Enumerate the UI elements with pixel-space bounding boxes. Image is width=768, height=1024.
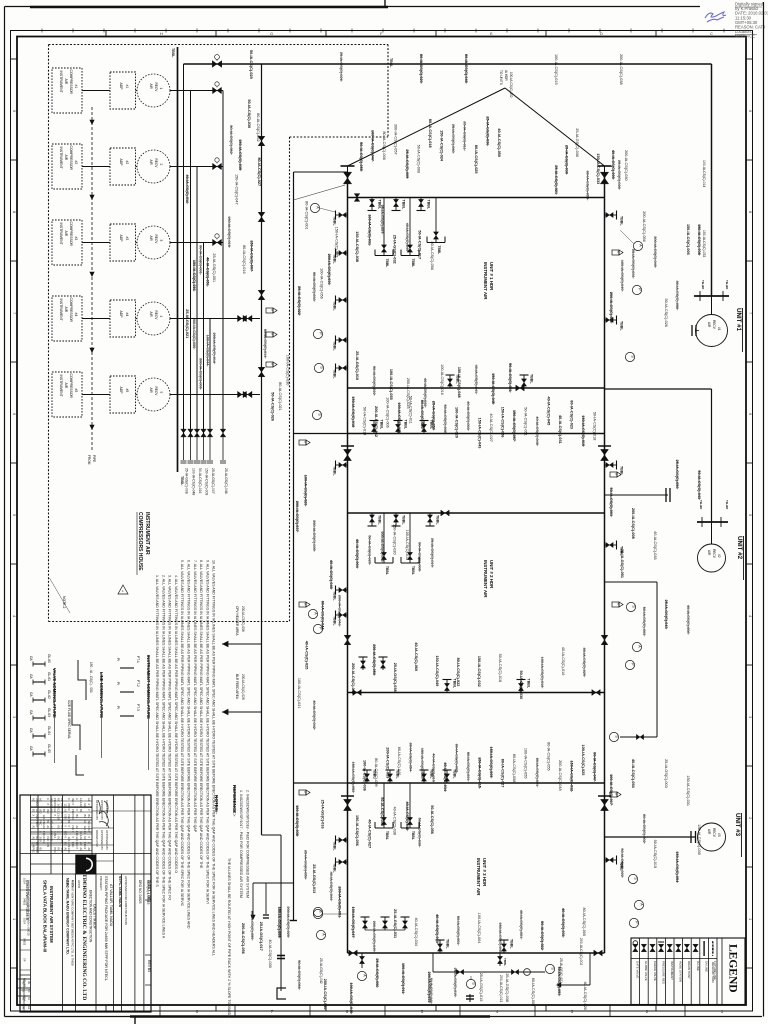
- wire units left riser: [293, 172, 295, 920]
- svg-text:80-IA-CS(C)-008: 80-IA-CS(C)-008: [531, 978, 535, 1006]
- svg-text:NTPC-TAMIL NADU ENERGY COMPANY: NTPC-TAMIL NADU ENERGY COMPANY LTD.: [66, 878, 70, 955]
- valve main header: [212, 61, 222, 68]
- note leader: [50, 578, 71, 613]
- svg-text:AIR: AIR: [149, 312, 153, 318]
- wire receiver 5 discharge: [170, 394, 223, 396]
- svg-text:D: D: [600, 31, 603, 36]
- svg-text:25-IA-GS(C)-038: 25-IA-GS(C)-038: [393, 663, 397, 692]
- svg-text:80-IA-CS(C)-058: 80-IA-CS(C)-058: [512, 754, 516, 782]
- svg-text:ERECTION AND CONSTRUCTION: ERECTION AND CONSTRUCTION: [89, 890, 93, 943]
- svg-text:150-IA-CS(C)-043: 150-IA-CS(C)-043: [478, 418, 482, 449]
- svg-text:A1: A1: [35, 809, 39, 813]
- svg-text:DRAIN TRAP: DRAIN TRAP: [687, 961, 691, 979]
- svg-text:25-IA-GS(C)-015: 25-IA-GS(C)-015: [479, 973, 483, 1002]
- svg-text:TBBL: TBBL: [620, 321, 624, 331]
- wire main header drop to unit1: [711, 64, 713, 296]
- svg-text:25-IA-GS(C)-036: 25-IA-GS(C)-036: [575, 128, 579, 157]
- svg-text:RC: RC: [57, 848, 61, 852]
- svg-text:RC: RC: [57, 837, 61, 841]
- svg-text:40-IA-CS(C)-027: 40-IA-CS(C)-027: [489, 413, 493, 441]
- unit2 entry valve left: [341, 445, 354, 447]
- svg-text:CALCUTTA BOP: CALCUTTA BOP: [93, 904, 97, 930]
- unit2 left bubble 3: [313, 624, 322, 633]
- svg-text:150-IA-CS(C)-033: 150-IA-CS(C)-033: [702, 230, 706, 257]
- unit1 on-bus valve: [516, 385, 524, 391]
- svg-text:PI: PI: [116, 682, 120, 685]
- unit3 receiver line: [605, 836, 696, 838]
- unit1 left bubble 3: [314, 363, 323, 372]
- svg-text:APPROVED BY: APPROVED BY: [100, 830, 104, 850]
- svg-text:1. 04823/DWG/SP/1017 - P&ID FO: 1. 04823/DWG/SP/1017 - P&ID FOR COMPRESS…: [239, 790, 243, 898]
- svg-text:200-IA-CS(C)-002: 200-IA-CS(C)-002: [579, 938, 583, 965]
- svg-text:S: S: [631, 355, 635, 358]
- svg-text:0: 0: [71, 831, 75, 833]
- svg-text:B: B: [271, 363, 275, 365]
- svg-text:80-IA-CS(C)-055: 80-IA-CS(C)-055: [547, 742, 551, 770]
- svg-text:GL-65: GL-65: [47, 744, 51, 753]
- svg-text:#4: #4: [125, 313, 129, 317]
- unit2 right bubble 2: [632, 642, 641, 651]
- svg-text:AC: AC: [87, 848, 91, 852]
- svg-text:TBBL: TBBL: [333, 841, 337, 851]
- svg-text:ADP: ADP: [119, 311, 123, 319]
- valve train 3: [213, 239, 222, 245]
- svg-text:A1: A1: [87, 798, 91, 802]
- title block revision rows: [31, 800, 93, 802]
- svg-text:AIR: AIR: [149, 388, 153, 394]
- svg-text:AIR: AIR: [149, 236, 153, 242]
- unit3 right stubs: [605, 859, 617, 861]
- svg-text:RECV: RECV: [712, 828, 716, 838]
- svg-text:INSTRUMENT AIR: INSTRUMENT AIR: [483, 262, 488, 300]
- unit2 mid valve left: [344, 635, 351, 645]
- svg-text:#3: #3: [125, 237, 129, 241]
- unit3 entry valve left: [341, 795, 354, 797]
- valve branch 3: [258, 290, 265, 300]
- svg-text:50-IA-CS(C)-036: 50-IA-CS(C)-036: [519, 671, 523, 700]
- svg-text:10. ALL VALVES AND FITTINGS IN: 10. ALL VALVES AND FITTINGS IN IA LINES …: [212, 560, 216, 956]
- svg-text:REV B3: REV B3: [23, 978, 27, 988]
- svg-text:150-IA-CS(C)-048: 150-IA-CS(C)-048: [457, 367, 461, 398]
- svg-text:50-IA-CS(C)-026: 50-IA-CS(C)-026: [664, 299, 668, 327]
- svg-text:B3: B3: [87, 815, 91, 819]
- unit3 stubs above top bus: [366, 770, 368, 783]
- svg-text:100-IA-CS(C)-006: 100-IA-CS(C)-006: [386, 397, 390, 428]
- svg-text:AIR: AIR: [149, 160, 153, 166]
- svg-text:PKC: PKC: [35, 848, 39, 853]
- air receiver 3: [136, 242, 138, 244]
- unit2 deep stub b: [409, 513, 411, 563]
- svg-text:150-IA-CS(C)-049: 150-IA-CS(C)-049: [435, 655, 439, 686]
- svg-text:B3: B3: [83, 831, 87, 835]
- svg-text:100-IA-CS(C)-020: 100-IA-CS(C)-020: [455, 407, 459, 438]
- svg-text:TBBL: TBBL: [333, 591, 337, 601]
- svg-text:40-IA-CS(C)-020: 40-IA-CS(C)-020: [583, 981, 587, 1009]
- svg-text:25-IA-GS(C)-051: 25-IA-GS(C)-051: [620, 549, 624, 578]
- svg-text:200-IA-CS(C)-006: 200-IA-CS(C)-006: [241, 606, 245, 632]
- svg-text:100-IA-CS(C)-002: 100-IA-CS(C)-002: [509, 72, 513, 98]
- svg-text:TB-HD: TB-HD: [701, 280, 705, 290]
- svg-text:150-IA-CS(C)-030: 150-IA-CS(C)-030: [697, 824, 701, 855]
- svg-text:GA: GA: [29, 710, 33, 715]
- svg-text:0: 0: [67, 826, 71, 828]
- svg-text:40-IA-CS(C)-034: 40-IA-CS(C)-034: [414, 917, 418, 945]
- svg-text:200-IA-CS(C)-048: 200-IA-CS(C)-048: [558, 760, 562, 791]
- instrument air compressor #3: [52, 220, 82, 265]
- globe valve unit1 right: [598, 165, 612, 167]
- svg-text:#1: #1: [74, 85, 78, 89]
- svg-text:100-IA-CS(C)-021: 100-IA-CS(C)-021: [297, 678, 301, 709]
- svg-text:50-IA-CS(C)-015: 50-IA-CS(C)-015: [653, 840, 657, 868]
- svg-text:3.09: 3.09: [60, 848, 64, 854]
- unit2 right bubble 3: [625, 660, 634, 669]
- svg-text:IA LINE: IA LINE: [696, 961, 700, 971]
- svg-text:PKC: PKC: [71, 842, 75, 847]
- svg-text:TO UNITS: TO UNITS: [499, 70, 503, 85]
- svg-text:80-IA-CS(C)-022: 80-IA-CS(C)-022: [456, 658, 460, 687]
- svg-text:200-IA-CS(C)-030: 200-IA-CS(C)-030: [624, 150, 628, 181]
- unit2 right branch: [605, 494, 669, 496]
- svg-text:40-IA-CS(C)-027: 40-IA-CS(C)-027: [368, 819, 372, 848]
- unit1 right stubs: [605, 214, 617, 216]
- svg-text:S: S: [320, 366, 324, 369]
- svg-text:CPV HEATER AREA: CPV HEATER AREA: [235, 606, 239, 636]
- svg-text:#1: #1: [717, 327, 721, 331]
- svg-text:100-IA-CS(C)-015: 100-IA-CS(C)-015: [405, 530, 409, 561]
- svg-text:A: A: [316, 206, 320, 209]
- svg-text:FROM: FROM: [87, 455, 91, 465]
- svg-text:DRN: DRN: [65, 880, 69, 887]
- unit2 feed line: [605, 388, 712, 390]
- unit3 stubs above bottom bus: [439, 940, 441, 953]
- svg-text:80-IA-CS(C)-025: 80-IA-CS(C)-025: [474, 145, 478, 174]
- bottom left bubbles: [313, 909, 322, 918]
- svg-text:200-IA-CS(C)-028: 200-IA-CS(C)-028: [241, 674, 245, 700]
- unit2 left bubble 1: [312, 410, 321, 419]
- svg-text:A1: A1: [60, 815, 64, 819]
- bubble drain 2: [545, 964, 554, 973]
- wire jog to drain: [262, 834, 282, 836]
- unit3 bottom bus: [348, 952, 605, 954]
- unit1 air receiver: [696, 315, 728, 347]
- air receiver 1: [136, 90, 138, 92]
- bottom strip valve b: [511, 969, 518, 974]
- svg-text:AIR: AIR: [707, 829, 711, 835]
- svg-text:INSTRUMENT: INSTRUMENT: [59, 299, 63, 321]
- svg-text:80-IA-CS(C)-027: 80-IA-CS(C)-027: [501, 759, 505, 788]
- svg-text:#3: #3: [74, 237, 78, 241]
- svg-text:80-IA-CS(C)-023: 80-IA-CS(C)-023: [570, 400, 574, 429]
- unit1 receiver nozzle: [691, 325, 693, 336]
- svg-text:GA: GA: [29, 746, 33, 751]
- svg-text:150-IA-CS(C)-035: 150-IA-CS(C)-035: [335, 227, 339, 258]
- svg-text:40-IA-CS(C)-035: 40-IA-CS(C)-035: [653, 531, 657, 559]
- unit1 right bubble 2: [632, 285, 641, 294]
- svg-text:A: A: [363, 974, 367, 977]
- svg-text:200-IA-CS(C)-056: 200-IA-CS(C)-056: [642, 211, 646, 242]
- svg-text:COMPRESSOR: COMPRESSOR: [69, 70, 73, 95]
- svg-text:APPROVED BY: APPROVED BY: [100, 800, 104, 820]
- svg-text:ISD: ISD: [64, 815, 68, 819]
- svg-text:TBBL: TBBL: [385, 831, 389, 840]
- unit2 top bus: [348, 433, 605, 435]
- svg-text:1024: 1024: [23, 918, 27, 924]
- svg-text:X: X: [75, 798, 79, 800]
- svg-text:GL-60: GL-60: [47, 654, 51, 663]
- svg-text:0: 0: [75, 848, 79, 850]
- air dryer package ADP #5: [82, 394, 110, 396]
- globe valve unit1 left: [341, 165, 355, 167]
- svg-text:AC: AC: [50, 826, 54, 830]
- unit1 valve top bus: [354, 194, 360, 202]
- valve pair train 5: [238, 391, 247, 397]
- svg-text:0: 0: [87, 837, 91, 839]
- svg-text:A: A: [638, 645, 642, 648]
- wire unit2 right jog: [605, 581, 658, 583]
- svg-text:200-IA-CS(C)-042: 200-IA-CS(C)-042: [351, 663, 355, 694]
- svg-text:PROJECT:: PROJECT:: [99, 876, 103, 891]
- svg-text:150-IA-CS(C)-056: 150-IA-CS(C)-056: [355, 815, 359, 846]
- svg-text:50-IA-CS(C)-051: 50-IA-CS(C)-051: [524, 407, 528, 435]
- svg-text:25-IA-GS(C)-038: 25-IA-GS(C)-038: [505, 973, 509, 1002]
- svg-text:100-IA-CS(C)-055: 100-IA-CS(C)-055: [389, 369, 393, 400]
- svg-text:COMPRESSOR: COMPRESSOR: [69, 146, 73, 171]
- unit2 bottom bus valves: [353, 690, 361, 696]
- svg-text:TBSL: TBSL: [171, 48, 175, 58]
- unit2 second bus: [348, 512, 605, 514]
- svg-text:INSTRUMENT: INSTRUMENT: [59, 223, 63, 245]
- unit2 jog bubble: [609, 732, 618, 741]
- svg-text:TBBL: TBBL: [385, 259, 389, 268]
- svg-text:09: 09: [27, 981, 30, 984]
- svg-text:40-IA-CS(C)-050: 40-IA-CS(C)-050: [497, 128, 501, 157]
- company logo: [76, 855, 96, 874]
- svg-text:TB-HD: TB-HD: [699, 500, 703, 510]
- svg-text:RC: RC: [64, 842, 68, 846]
- legend table grid: [631, 938, 745, 1005]
- svg-text:INSTRUMENT AIR SYSTEM: INSTRUMENT AIR SYSTEM: [49, 886, 54, 943]
- svg-text:UNIT # 2 HDR: UNIT # 2 HDR: [489, 560, 494, 589]
- valve train 1: [213, 87, 222, 93]
- wire diagonal tail: [294, 185, 346, 200]
- svg-text:200-IA-CS(C)-056: 200-IA-CS(C)-056: [241, 923, 245, 954]
- svg-text:AC: AC: [75, 826, 79, 830]
- svg-text:APPROVED BY: APPROVED BY: [95, 800, 99, 820]
- svg-text:INSTRUMENT: INSTRUMENT: [59, 375, 63, 397]
- title block grid: [20, 795, 151, 1012]
- svg-text:NOTE-2: NOTE-2: [62, 596, 66, 609]
- svg-text:TBBL: TBBL: [446, 939, 450, 949]
- svg-text:G: G: [270, 31, 273, 36]
- svg-text:A: A: [314, 612, 318, 615]
- svg-text:100-IA-CS(C)-025: 100-IA-CS(C)-025: [581, 745, 585, 776]
- svg-text:150-IA-CS(C)-047: 150-IA-CS(C)-047: [235, 174, 239, 205]
- svg-text:ISD: ISD: [50, 820, 54, 824]
- svg-text:PKC: PKC: [32, 848, 36, 853]
- svg-text:25-IA-GS(C)-008: 25-IA-GS(C)-008: [185, 468, 189, 494]
- svg-text:80-IA-CS(C)-021: 80-IA-CS(C)-021: [278, 382, 282, 410]
- svg-text:A1: A1: [32, 826, 36, 830]
- svg-text:TBBL: TBBL: [437, 246, 441, 255]
- svg-text:150-IA-CS(C)-038: 150-IA-CS(C)-038: [355, 231, 359, 262]
- svg-text:DATE: DATE: [83, 880, 87, 888]
- svg-text:0: 0: [39, 831, 43, 833]
- svg-text:0: 0: [35, 826, 39, 828]
- unit1 deep stub a: [383, 198, 385, 256]
- svg-text:40-IA-CS(C)-031: 40-IA-CS(C)-031: [558, 415, 562, 444]
- svg-text:50-IA-CS(C)-030: 50-IA-CS(C)-030: [247, 99, 251, 128]
- air dryer package ADP #2: [82, 166, 110, 168]
- svg-text:1: 1: [159, 88, 163, 90]
- svg-text:3.09: 3.09: [67, 848, 71, 854]
- svg-text:TBBL: TBBL: [333, 466, 337, 476]
- svg-text:200-IA-CS(C)-040: 200-IA-CS(C)-040: [323, 979, 327, 1010]
- instrument air compressor #1: [52, 68, 82, 113]
- svg-text:PRESSURE REG: PRESSURE REG: [661, 961, 665, 985]
- wire main header horizontal: [184, 63, 712, 65]
- svg-text:TBBL: TBBL: [527, 679, 531, 689]
- svg-text:INSTRUMENT: INSTRUMENT: [59, 71, 63, 93]
- svg-text:B: B: [617, 251, 621, 253]
- unit1 receiver flange: [694, 295, 729, 297]
- svg-text:AC: AC: [42, 826, 46, 830]
- svg-text:AC: AC: [79, 804, 83, 808]
- svg-text:UNIT #2: UNIT #2: [736, 536, 743, 560]
- svg-text:200-IA-CS(C)-032: 200-IA-CS(C)-032: [374, 406, 378, 437]
- unit3 receiver flange: [690, 831, 692, 843]
- svg-text:40-IA-CS(C)-030: 40-IA-CS(C)-030: [268, 939, 272, 967]
- svg-text:B: B: [304, 603, 308, 605]
- svg-text:TBBL: TBBL: [436, 515, 440, 525]
- svg-text:#3: #3: [717, 833, 721, 837]
- unit2 on-bus valve: [441, 510, 449, 516]
- svg-text:100-IA-CS(C)-056: 100-IA-CS(C)-056: [320, 268, 324, 299]
- svg-text:RECV: RECV: [154, 83, 158, 93]
- svg-text:CHECK VALVE: CHECK VALVE: [653, 961, 657, 981]
- svg-text:B: B: [271, 309, 275, 311]
- wire unit right main header: [604, 172, 606, 953]
- svg-text:100-IA-CS(C)-036: 100-IA-CS(C)-036: [363, 760, 367, 791]
- svg-text:TBBL: TBBL: [378, 515, 382, 525]
- unit2 mid valve right: [601, 635, 608, 645]
- svg-text:A1: A1: [64, 809, 68, 813]
- svg-text:A: A: [640, 903, 644, 906]
- svg-text:50-IA-CS(C)-014: 50-IA-CS(C)-014: [363, 407, 367, 435]
- svg-text:B3: B3: [67, 820, 71, 824]
- svg-text:AIR: AIR: [64, 155, 68, 161]
- svg-text:150-IA-CS(C)-031: 150-IA-CS(C)-031: [686, 775, 690, 806]
- svg-text:H: H: [160, 31, 163, 36]
- svg-text:50-IA-CS(C)-016: 50-IA-CS(C)-016: [198, 468, 202, 494]
- svg-text:ADP: ADP: [119, 235, 123, 243]
- svg-text:P: P: [631, 663, 635, 666]
- instrument air compressor #4: [52, 296, 82, 341]
- svg-text:A JOINT VENTURE COMPANY BETWEE: A JOINT VENTURE COMPANY BETWEEN NTPC LTD…: [71, 880, 75, 966]
- svg-text:AC: AC: [64, 848, 68, 852]
- svg-text:80-IA-CS(C)-052: 80-IA-CS(C)-052: [256, 113, 260, 141]
- svg-text:5. ALL VALVES AND FITTINGS IN: 5. ALL VALVES AND FITTINGS IN IA LINES S…: [180, 560, 184, 907]
- svg-text:25-IA-GS(C)-032: 25-IA-GS(C)-032: [393, 235, 397, 264]
- svg-text:25-IA-GS(C)-021: 25-IA-GS(C)-021: [185, 309, 189, 338]
- svg-text:GATE VALVE: GATE VALVE: [636, 961, 640, 978]
- svg-text:X: X: [87, 804, 91, 806]
- svg-text:150-IA-CS(C)-024: 150-IA-CS(C)-024: [440, 130, 444, 162]
- svg-text:AC: AC: [39, 798, 43, 802]
- svg-text:0: 0: [64, 837, 68, 839]
- svg-text:1: 1: [122, 589, 124, 593]
- wire unit1 entry: [294, 171, 348, 173]
- svg-text:40-IA-CS(C)-054: 40-IA-CS(C)-054: [631, 759, 635, 789]
- svg-text:GA: GA: [29, 656, 33, 661]
- bubble drain 3: [357, 971, 366, 980]
- svg-text:ISD: ISD: [50, 837, 54, 841]
- svg-text:TBBL: TBBL: [427, 200, 431, 210]
- svg-text:A1: A1: [83, 820, 87, 824]
- svg-text:TBBL: TBBL: [333, 301, 337, 311]
- svg-text:INSTRUMENT: INSTRUMENT: [59, 147, 63, 169]
- svg-text:3: 3: [159, 240, 163, 242]
- svg-text:TBBL: TBBL: [503, 958, 507, 966]
- svg-text:150-IA-CS(C)-009: 150-IA-CS(C)-009: [205, 468, 209, 495]
- svg-text:ADP: ADP: [119, 387, 123, 395]
- svg-text:100-IA-CS(C)-055: 100-IA-CS(C)-055: [524, 748, 528, 779]
- unit3 entry valve right: [598, 795, 611, 797]
- svg-text:1024: 1024: [23, 995, 27, 1001]
- svg-text:04823: 04823: [23, 898, 27, 906]
- svg-text:#2: #2: [125, 161, 129, 165]
- wire unit2 feed from riser: [294, 433, 348, 435]
- unit1 stubs below top bus: [371, 198, 373, 211]
- air dryer package ADP #3: [82, 242, 110, 244]
- unit1 bottom bus: [348, 387, 605, 389]
- air receiver 5: [136, 394, 138, 396]
- svg-text:PT-3: PT-3: [136, 704, 140, 711]
- svg-text:B3: B3: [60, 826, 64, 830]
- air dryer package ADP #4: [82, 318, 110, 320]
- unit3 right bubble 1: [628, 874, 637, 883]
- svg-text:TBBL: TBBL: [402, 515, 406, 525]
- arrow takeoff boiler area: [222, 711, 262, 713]
- bottom strip flange: [469, 994, 471, 1002]
- svg-text:25-IA-GS(C)-048: 25-IA-GS(C)-048: [224, 468, 228, 494]
- wire receiver 3 discharge: [170, 242, 223, 244]
- svg-text:TBBL: TBBL: [530, 374, 534, 384]
- svg-text:3.09: 3.09: [39, 837, 43, 843]
- svg-text:GL-64: GL-64: [47, 726, 51, 735]
- svg-text:APPROVED FOR CONSTRUCTION: APPROVED FOR CONSTRUCTION: [124, 876, 128, 925]
- svg-text:A1: A1: [60, 820, 64, 824]
- svg-text:80-IA-CS(C)-005: 80-IA-CS(C)-005: [582, 908, 586, 936]
- air receiver 4: [136, 318, 138, 320]
- svg-text:X: X: [57, 831, 61, 833]
- svg-text:COMPRESSOR: COMPRESSOR: [69, 374, 73, 399]
- unit3 right bubble 2: [634, 900, 643, 909]
- svg-text:RC: RC: [50, 809, 54, 813]
- svg-text:80-IA-CS(C)-018: 80-IA-CS(C)-018: [428, 119, 432, 148]
- svg-text:#5: #5: [125, 389, 129, 393]
- svg-text:40-IA-CS(C)-016: 40-IA-CS(C)-016: [561, 647, 565, 675]
- unit3 left bubble 1: [313, 907, 322, 916]
- svg-text:25-IA-GS(C)-003: 25-IA-GS(C)-003: [664, 759, 668, 788]
- svg-text:GL-62: GL-62: [47, 690, 51, 699]
- svg-text:P: P: [638, 288, 642, 291]
- valve row at header bottoms: [181, 429, 187, 437]
- svg-text:ISD: ISD: [39, 809, 43, 813]
- svg-text:25-IA-GS(C)-017: 25-IA-GS(C)-017: [259, 922, 263, 951]
- svg-text:AC: AC: [79, 837, 83, 841]
- svg-text:C: C: [710, 31, 713, 36]
- svg-text:B3: B3: [83, 815, 87, 819]
